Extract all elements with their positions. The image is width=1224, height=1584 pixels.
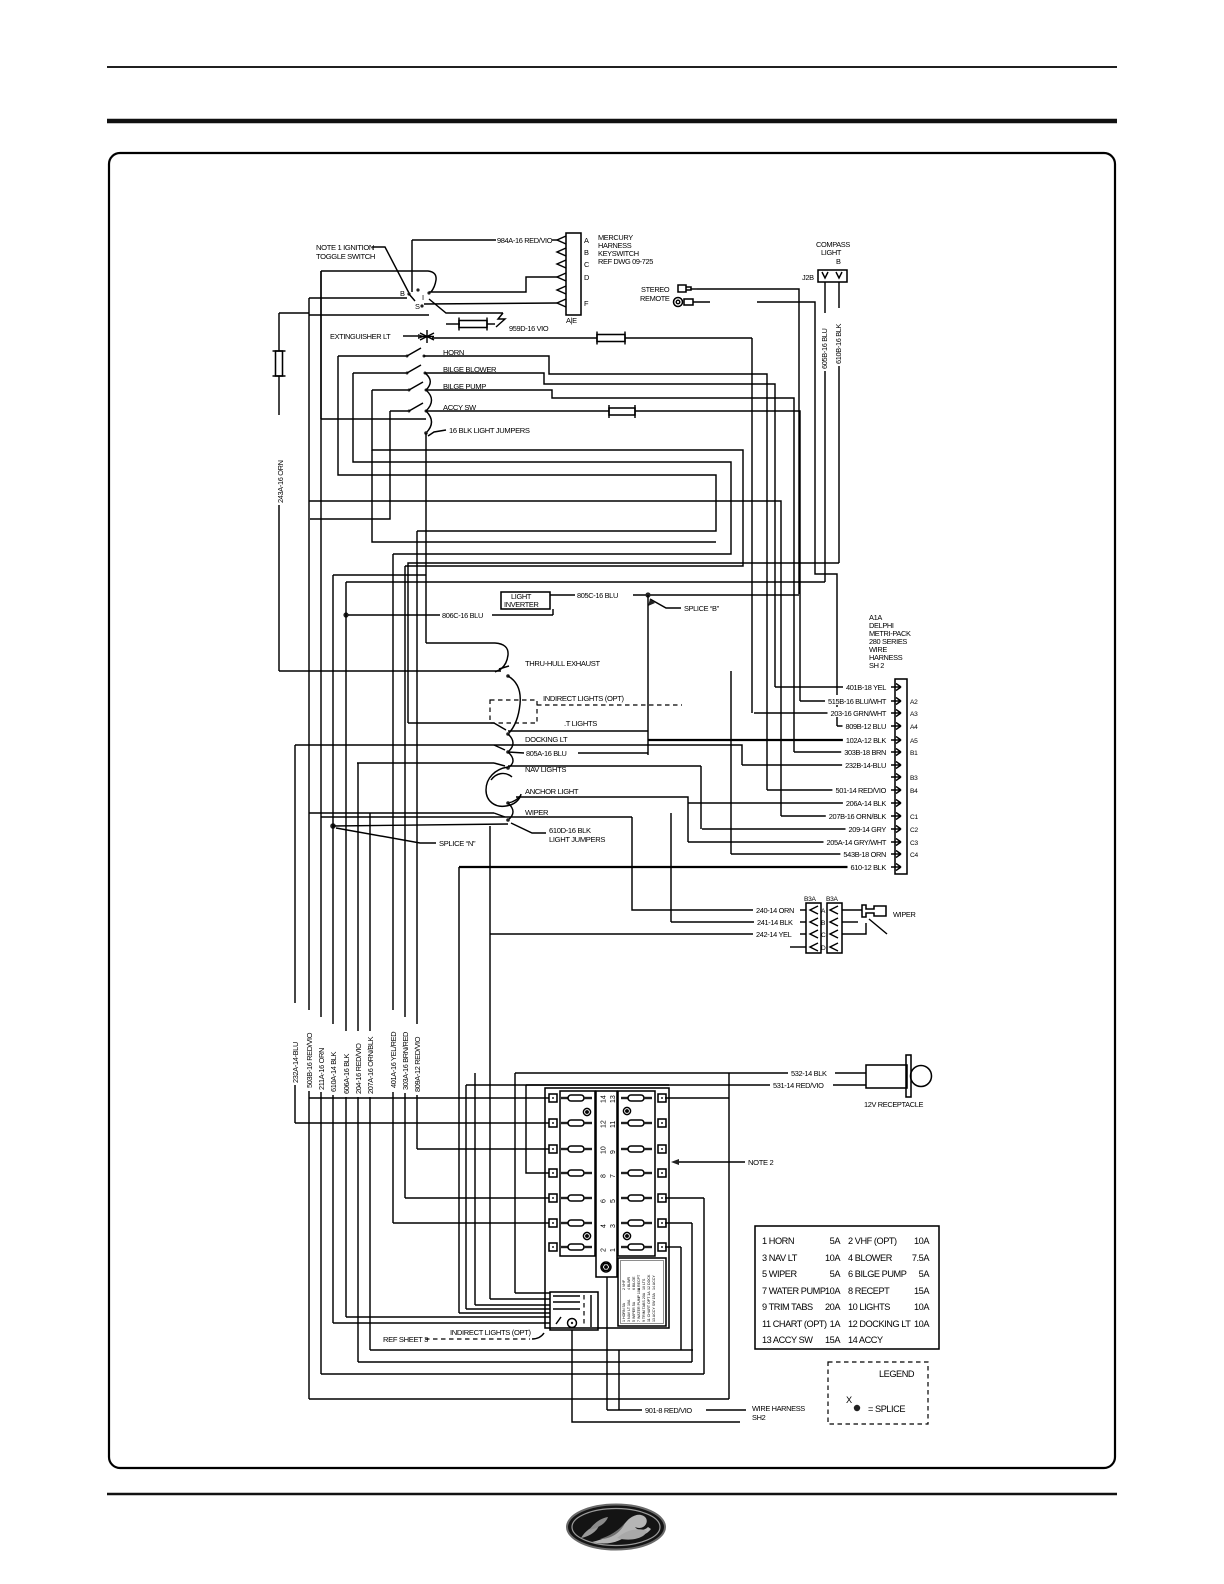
- svg-text:8 RECPT: 8 RECPT: [637, 1274, 641, 1290]
- wire 610B to T lights: [408, 563, 839, 723]
- svg-text:241-14 BLK: 241-14 BLK: [757, 918, 793, 927]
- module ground wire: [572, 1330, 740, 1422]
- svg-text:14: 14: [601, 1095, 608, 1103]
- bottom cascade row 1362: [358, 1361, 692, 1363]
- wire ignition box left drop: [321, 418, 426, 420]
- wire anchor to A1A 205A: [516, 797, 688, 842]
- svg-text:5 WIPER: 5 WIPER: [762, 1269, 797, 1279]
- svg-text:211A-16 ORN: 211A-16 ORN: [317, 1048, 326, 1090]
- wire 984A-16 RED/VIO: [412, 239, 496, 241]
- left bus column 303A-16 BRN/RED: [401, 566, 410, 1198]
- svg-text:6: 6: [601, 1199, 608, 1203]
- switch bilge pump: [372, 382, 486, 392]
- svg-text:C: C: [584, 260, 590, 269]
- fuse panel outer box: [545, 1088, 669, 1328]
- svg-text:I: I: [422, 293, 424, 302]
- indirect lights optional module dashes: [490, 694, 682, 723]
- svg-text:6 BILGE PUMP: 6 BILGE PUMP: [848, 1269, 907, 1279]
- wire 232B-14-BLU: [742, 759, 889, 770]
- svg-text:D: D: [821, 945, 826, 952]
- svg-text:1A: 1A: [830, 1319, 842, 1329]
- svg-text:ANCHOR LIGHT: ANCHOR LIGHT: [525, 787, 579, 796]
- svg-text:10A: 10A: [914, 1302, 930, 1312]
- light inverter: [501, 592, 550, 609]
- svg-text:206A-14 BLK: 206A-14 BLK: [846, 799, 887, 808]
- wire docking feed to A1A 232B: [295, 745, 742, 765]
- svg-text:3 NAV LT: 3 NAV LT: [762, 1253, 798, 1263]
- svg-text:NOTE 1 IGNITION: NOTE 1 IGNITION: [316, 243, 374, 252]
- svg-text:9 TRIM TABS: 9 TRIM TABS: [762, 1302, 813, 1312]
- note 2: [671, 1158, 773, 1167]
- svg-text:B3A: B3A: [826, 896, 838, 903]
- svg-text:12 DOCKING LT: 12 DOCKING LT: [848, 1319, 911, 1329]
- switch accy: [390, 403, 477, 413]
- ignition toggle switch body: [309, 271, 436, 419]
- svg-text:10A: 10A: [914, 1236, 930, 1246]
- svg-text:SH2: SH2: [752, 1413, 766, 1422]
- wire ground bus 610-12 BLK: [459, 861, 890, 1313]
- svg-text:LEGEND: LEGEND: [879, 1369, 915, 1379]
- svg-text:13 ACCY SW 15A: 13 ACCY SW 15A: [652, 1293, 656, 1323]
- wire 203-16 GRN/WHT: [754, 707, 890, 718]
- wire 243A to thru-hull: [279, 670, 501, 672]
- stereo ring terminal: [674, 298, 711, 307]
- wire 901-8 RED/VIO: [607, 1277, 805, 1422]
- A1A pin arrows: [891, 684, 901, 871]
- svg-text:C3: C3: [910, 840, 918, 847]
- svg-text:14 ACCY: 14 ACCY: [652, 1275, 656, 1290]
- connector A1A body: [895, 679, 907, 874]
- svg-text:4 BLWR: 4 BLWR: [627, 1276, 631, 1290]
- splice N: [330, 823, 508, 848]
- svg-text:= SPLICE: = SPLICE: [868, 1404, 905, 1414]
- svg-text:20A: 20A: [825, 1302, 841, 1312]
- splice B: [645, 592, 719, 613]
- wire 240-14 ORN: [632, 817, 806, 915]
- fuse panel right fuse column: [618, 1091, 655, 1256]
- svg-text:809B-12 BLU: 809B-12 BLU: [845, 722, 886, 731]
- schematic border frame: [109, 153, 1115, 1468]
- fuse panel feed lines: [526, 1085, 669, 1173]
- fuse rows: [549, 1094, 666, 1252]
- footer rule: [107, 1493, 1117, 1496]
- svg-text:13 ACCY SW: 13 ACCY SW: [762, 1335, 813, 1345]
- svg-text:12 DOCK: 12 DOCK: [647, 1274, 651, 1290]
- left bus column 207A-16 ORN/BLK: [366, 813, 375, 1350]
- svg-text:B: B: [400, 289, 405, 298]
- wire 242-14 YEL: [490, 928, 806, 939]
- svg-text:S: S: [415, 302, 420, 311]
- svg-text:7 WATER PUMP 10A: 7 WATER PUMP 10A: [637, 1287, 641, 1322]
- svg-text:503B-16 RED/VIO: 503B-16 RED/VIO: [305, 1032, 314, 1088]
- extinguisher light label and splice: [330, 330, 434, 343]
- svg-text:8 RECEPT: 8 RECEPT: [848, 1286, 890, 1296]
- svg-text:C4: C4: [910, 852, 918, 859]
- bottom cascade row 1374: [321, 1373, 704, 1375]
- svg-text:205A-14 GRY/WHT: 205A-14 GRY/WHT: [826, 838, 886, 847]
- svg-text:2: 2: [601, 1248, 608, 1252]
- svg-text:9: 9: [610, 1150, 617, 1154]
- wire 805C-16 BLU: [550, 591, 799, 600]
- connector A1A harness label: [869, 613, 911, 670]
- svg-text:INDIRECT LIGHTS (OPT): INDIRECT LIGHTS (OPT): [543, 694, 625, 703]
- wire 207B-16 ORN/BLK: [781, 810, 889, 821]
- svg-text:SH 2: SH 2: [869, 661, 884, 670]
- wire horn drop cascade: [338, 356, 716, 531]
- svg-text:7: 7: [610, 1174, 617, 1178]
- svg-text:11: 11: [610, 1121, 617, 1128]
- svg-text:.T LIGHTS: .T LIGHTS: [564, 719, 597, 728]
- riser fuse 2/1: [680, 1247, 682, 1350]
- wire thru-hull exhaust feed: [426, 643, 509, 672]
- svg-text:B3: B3: [910, 775, 918, 782]
- svg-text:232A-14-BLU: 232A-14-BLU: [291, 1042, 300, 1083]
- svg-text:C1: C1: [910, 814, 918, 821]
- wire nav lt net 207: [309, 501, 781, 816]
- wire 806C-16 BLU: [343, 609, 553, 620]
- svg-text:605B-16 BLU: 605B-16 BLU: [820, 328, 829, 369]
- switch jumper arcs: [424, 373, 431, 435]
- fuse panel left fuse column: [560, 1091, 595, 1256]
- svg-text:2 VHF (OPT): 2 VHF (OPT): [848, 1236, 897, 1246]
- svg-text:5A: 5A: [830, 1269, 842, 1279]
- riser fuse 6/5 right: [703, 1198, 705, 1374]
- wire stereo ground: [757, 302, 837, 726]
- svg-text:SPLICE “B”: SPLICE “B”: [684, 604, 720, 613]
- indirect lights module: [550, 1292, 598, 1330]
- wire ignition S to pin F: [424, 303, 557, 304]
- wire 605B-16 BLU: [820, 282, 829, 582]
- wire light jumpers down: [425, 433, 427, 643]
- svg-text:EXTINGUISHER LT: EXTINGUISHER LT: [330, 332, 391, 341]
- ref sheet 3 label: [383, 1328, 544, 1344]
- wire 206A-14 BLK: [688, 797, 889, 808]
- svg-text:5: 5: [610, 1199, 617, 1203]
- bottom cascade row 1350: [370, 1349, 693, 1351]
- svg-text:12V RECEPTACLE: 12V RECEPTACLE: [864, 1100, 923, 1109]
- riser to 901 wire: [618, 1350, 620, 1410]
- svg-text:WIRE HARNESS: WIRE HARNESS: [752, 1404, 805, 1413]
- switch docking lt: [494, 734, 568, 754]
- svg-text:401B-18 YEL: 401B-18 YEL: [846, 683, 886, 692]
- svg-text:401A-16 YEL/RED: 401A-16 YEL/RED: [389, 1032, 398, 1088]
- left bus column 401A-16 YEL/RED: [389, 554, 398, 1223]
- wire 531-14 RED/VIO: [466, 1079, 866, 1090]
- svg-text:242-14 YEL: 242-14 YEL: [756, 930, 792, 939]
- svg-text:1: 1: [610, 1248, 617, 1252]
- svg-text:203-16 GRN/WHT: 203-16 GRN/WHT: [831, 709, 887, 718]
- svg-text:B: B: [836, 257, 841, 266]
- keyswitch connector AE: [557, 233, 590, 325]
- panel mounting holes: [583, 1107, 630, 1239]
- svg-text:8: 8: [601, 1174, 608, 1178]
- fuse panel number strip: [596, 1091, 617, 1277]
- svg-text:NOTE 2: NOTE 2: [748, 1158, 773, 1167]
- Sea Ray logo: [567, 1505, 665, 1550]
- wire pump to A1A B1: [426, 390, 794, 752]
- header rule thick: [107, 119, 1117, 124]
- svg-text:1 HORN 5A: 1 HORN 5A: [622, 1302, 626, 1322]
- panel screw terminal: [601, 1262, 611, 1272]
- wire 303B-18 BRN: [794, 746, 889, 757]
- svg-text:501-14 RED/VIO: 501-14 RED/VIO: [835, 786, 886, 795]
- svg-text:10A: 10A: [914, 1319, 930, 1329]
- wire stereo power: [697, 289, 799, 594]
- svg-text:209-14 GRY: 209-14 GRY: [849, 825, 887, 834]
- svg-text:4 BLOWER: 4 BLOWER: [848, 1253, 893, 1263]
- svg-text:901-8 RED/VIO: 901-8 RED/VIO: [645, 1406, 692, 1415]
- svg-text:532-14 BLK: 532-14 BLK: [791, 1069, 827, 1078]
- svg-text:204-16 RED/VIO: 204-16 RED/VIO: [354, 1043, 363, 1094]
- svg-text:102A-12 BLK: 102A-12 BLK: [846, 736, 887, 745]
- wire 243A-16 ORN with fuse: [273, 313, 310, 671]
- svg-text:14 ACCY: 14 ACCY: [848, 1335, 883, 1345]
- thru-hull exhaust switch: [506, 659, 600, 678]
- wire 401B-18 YEL: [775, 681, 889, 692]
- left bus column 204-16 RED/VIO: [354, 763, 363, 1362]
- svg-text:INVERTER: INVERTER: [504, 600, 538, 609]
- svg-text:5A: 5A: [919, 1269, 931, 1279]
- fuse legend table: [755, 1226, 939, 1349]
- wire ignition B feed: [309, 297, 407, 299]
- svg-text:SPLICE “N”: SPLICE “N”: [439, 839, 476, 848]
- svg-text:3: 3: [610, 1224, 617, 1228]
- svg-text:15A: 15A: [825, 1335, 841, 1345]
- wire box top edge: [321, 816, 632, 818]
- wire 610B-16 BLK: [834, 282, 843, 563]
- svg-text:4: 4: [601, 1224, 608, 1228]
- svg-text:243A-16 ORN: 243A-16 ORN: [276, 460, 285, 503]
- svg-text:15A: 15A: [914, 1286, 930, 1296]
- svg-text:10 LIGHTS: 10 LIGHTS: [848, 1302, 890, 1312]
- bottom cascade row 1399: [309, 1398, 729, 1400]
- wire 959D-16 VIO with fuse: [429, 299, 549, 333]
- svg-text:WIPER: WIPER: [525, 808, 549, 817]
- svg-text:610D-16 BLK: 610D-16 BLK: [549, 826, 591, 835]
- wire ignition I to pin D: [429, 277, 557, 292]
- svg-text:B: B: [821, 920, 826, 927]
- wire accy drop: [310, 411, 390, 519]
- wire 809B-12 BLU: [837, 720, 889, 731]
- svg-text:805C-16 BLU: 805C-16 BLU: [577, 591, 618, 600]
- svg-text:7 WATER PUMP: 7 WATER PUMP: [762, 1286, 826, 1296]
- legend box: [828, 1362, 928, 1424]
- svg-text:A4: A4: [910, 724, 918, 731]
- header rule thin: [107, 66, 1117, 68]
- wiper motor: [842, 905, 915, 934]
- svg-text:THRU-HULL EXHAUST: THRU-HULL EXHAUST: [525, 659, 600, 668]
- svg-text:610B-16 BLK: 610B-16 BLK: [834, 323, 843, 364]
- wire 501-14 RED/VIO: [767, 784, 890, 795]
- svg-text:A2: A2: [910, 699, 918, 706]
- leader to ignition switch: [372, 247, 410, 295]
- svg-text:5 WIPER 5A: 5 WIPER 5A: [632, 1301, 636, 1322]
- wire 205A-14 GRY/WHT: [688, 836, 890, 847]
- wire 515B-16 BLU/WHT: [800, 695, 890, 706]
- svg-text:B: B: [584, 248, 589, 257]
- svg-text:INDIRECT LIGHTS (OPT): INDIRECT LIGHTS (OPT): [450, 1328, 532, 1337]
- svg-text:10 LTS: 10 LTS: [642, 1278, 646, 1290]
- svg-text:X: X: [846, 1395, 852, 1405]
- svg-text:12: 12: [601, 1120, 608, 1128]
- svg-text:16 BLK LIGHT JUMPERS: 16 BLK LIGHT JUMPERS: [449, 426, 530, 435]
- switch T lights: [408, 719, 648, 736]
- svg-text:606A-16 BLK: 606A-16 BLK: [342, 1053, 351, 1094]
- svg-text:543B-18 ORN: 543B-18 ORN: [843, 850, 886, 859]
- left bus column 809A-12 RED/VIO: [413, 531, 422, 1149]
- wire splice B down: [647, 595, 649, 755]
- svg-text:REF DWG 09-725: REF DWG 09-725: [598, 257, 653, 266]
- svg-text:232B-14-BLU: 232B-14-BLU: [845, 761, 886, 770]
- riser fuse 14/13 right: [728, 1073, 730, 1399]
- svg-text:TOGGLE SWITCH: TOGGLE SWITCH: [316, 252, 375, 261]
- svg-text:515B-16 BLU/WHT: 515B-16 BLU/WHT: [828, 697, 887, 706]
- switch horn: [338, 348, 464, 358]
- svg-text:303B-18 BRN: 303B-18 BRN: [844, 748, 886, 757]
- wire 241-14 BLK: [671, 916, 806, 927]
- svg-text:984A-16 RED/VIO: 984A-16 RED/VIO: [497, 236, 553, 245]
- wire 805A-16 BLU: [508, 749, 648, 758]
- svg-text:STEREO: STEREO: [641, 285, 670, 294]
- svg-text:207B-16 ORN/BLK: 207B-16 ORN/BLK: [829, 812, 887, 821]
- svg-text:303A-16 BRN/RED: 303A-16 BRN/RED: [401, 1032, 410, 1090]
- svg-text:610A-14 BLK: 610A-14 BLK: [329, 1051, 338, 1092]
- svg-text:3 NAV LT 10A: 3 NAV LT 10A: [627, 1299, 631, 1322]
- svg-text:805A-16 BLU: 805A-16 BLU: [526, 749, 567, 758]
- wire pump lower tap: [372, 450, 716, 542]
- connector B3A pair: [790, 896, 842, 953]
- svg-text:11 CHART (OPT): 11 CHART (OPT): [762, 1319, 827, 1329]
- wire 532-14 BLK: [515, 1067, 866, 1078]
- wire 102A-12 BLK: [648, 734, 889, 829]
- svg-text:610-12 BLK: 610-12 BLK: [850, 863, 886, 872]
- svg-text:F: F: [584, 299, 589, 308]
- wire blower to A1A: [425, 373, 775, 687]
- svg-text:806C-16 BLU: 806C-16 BLU: [442, 611, 483, 620]
- label 610D-16 BLK light jumpers: [511, 823, 605, 844]
- left bus column 610A-14 BLK: [329, 575, 426, 1323]
- svg-text:LIGHT JUMPERS: LIGHT JUMPERS: [549, 835, 605, 844]
- svg-text:809A-12 RED/VIO: 809A-12 RED/VIO: [413, 1036, 422, 1092]
- svg-text:C: C: [821, 932, 826, 939]
- switch arc indirect to T lights: [508, 676, 520, 734]
- svg-text:D: D: [584, 273, 589, 282]
- stereo spade terminal: [678, 285, 697, 292]
- wire extinguisher to keyswitch fuse: [432, 332, 752, 714]
- 12V receptacle: [864, 1055, 932, 1109]
- svg-text:J2B: J2B: [802, 273, 814, 282]
- svg-text:2 VHF: 2 VHF: [622, 1279, 626, 1290]
- wire wiper to B3A: [670, 813, 672, 922]
- switch nav lights: [357, 752, 701, 774]
- A1A cavity labels: [910, 699, 918, 859]
- svg-text:C2: C2: [910, 827, 918, 834]
- svg-text:B4: B4: [910, 788, 918, 795]
- svg-text:9 TRIM TABS 20A: 9 TRIM TABS 20A: [642, 1292, 646, 1322]
- switch wiper: [309, 803, 549, 822]
- svg-text:10A: 10A: [825, 1286, 841, 1296]
- wire pump drop cascade: [372, 390, 743, 566]
- svg-text:13: 13: [610, 1095, 617, 1103]
- svg-text:A: A: [821, 908, 826, 915]
- svg-text:REF SHEET 3: REF SHEET 3: [383, 1335, 428, 1344]
- svg-text:LIGHT: LIGHT: [821, 248, 842, 257]
- svg-text:DOCKING LT: DOCKING LT: [525, 735, 568, 744]
- svg-text:10A: 10A: [825, 1253, 841, 1263]
- fuse row right stubs: [665, 1098, 729, 1247]
- left bus column 606A-16 BLK: [342, 582, 351, 1317]
- svg-text:10: 10: [601, 1146, 608, 1154]
- switch bilge blower: [353, 365, 497, 375]
- wire 605B to inverter bus: [346, 581, 825, 583]
- left bus column 232A-14-BLU: [291, 745, 300, 1123]
- svg-text:A3: A3: [910, 711, 918, 718]
- label 16 blk light jumpers: [428, 426, 530, 436]
- svg-text:A|E: A|E: [566, 316, 577, 325]
- wire blower drop cascade: [353, 373, 731, 554]
- svg-text:WIPER: WIPER: [893, 910, 915, 919]
- switch anchor light loop: [486, 767, 579, 806]
- wire accy with fuse to A1A A2: [426, 405, 800, 701]
- wire horn to A1A B4: [424, 356, 767, 790]
- left bus column 211A-16 ORN: [317, 271, 326, 1374]
- svg-text:531-14 RED/VIO: 531-14 RED/VIO: [773, 1081, 824, 1090]
- wire 209-14 GRY: [702, 823, 889, 834]
- svg-text:A5: A5: [910, 738, 918, 745]
- svg-text:207A-16 ORN/BLK: 207A-16 ORN/BLK: [366, 1036, 375, 1094]
- wire 543B-18 ORN: [731, 671, 889, 859]
- svg-text:6 BILGE: 6 BILGE: [632, 1276, 636, 1290]
- svg-text:240-14 ORN: 240-14 ORN: [756, 906, 794, 915]
- svg-text:B3A: B3A: [804, 896, 816, 903]
- receptacle feed risers: [466, 826, 515, 1309]
- svg-text:1 HORN: 1 HORN: [762, 1236, 794, 1246]
- module feed rows: [333, 1293, 550, 1323]
- svg-text:959D-16 VIO: 959D-16 VIO: [509, 324, 549, 333]
- svg-text:11 CHART OPT 1A: 11 CHART OPT 1A: [647, 1291, 651, 1322]
- svg-text:7.5A: 7.5A: [912, 1253, 930, 1263]
- svg-text:B1: B1: [910, 750, 918, 757]
- svg-text:REMOTE: REMOTE: [640, 294, 670, 303]
- left bus column 503B-16 RED/VIO: [305, 298, 314, 1399]
- fuse legend sticker: [618, 1258, 666, 1326]
- riser fuse 4/3 right: [691, 1223, 693, 1362]
- svg-text:5A: 5A: [830, 1236, 842, 1246]
- connector J2B: [802, 270, 847, 282]
- svg-text:A: A: [584, 236, 589, 245]
